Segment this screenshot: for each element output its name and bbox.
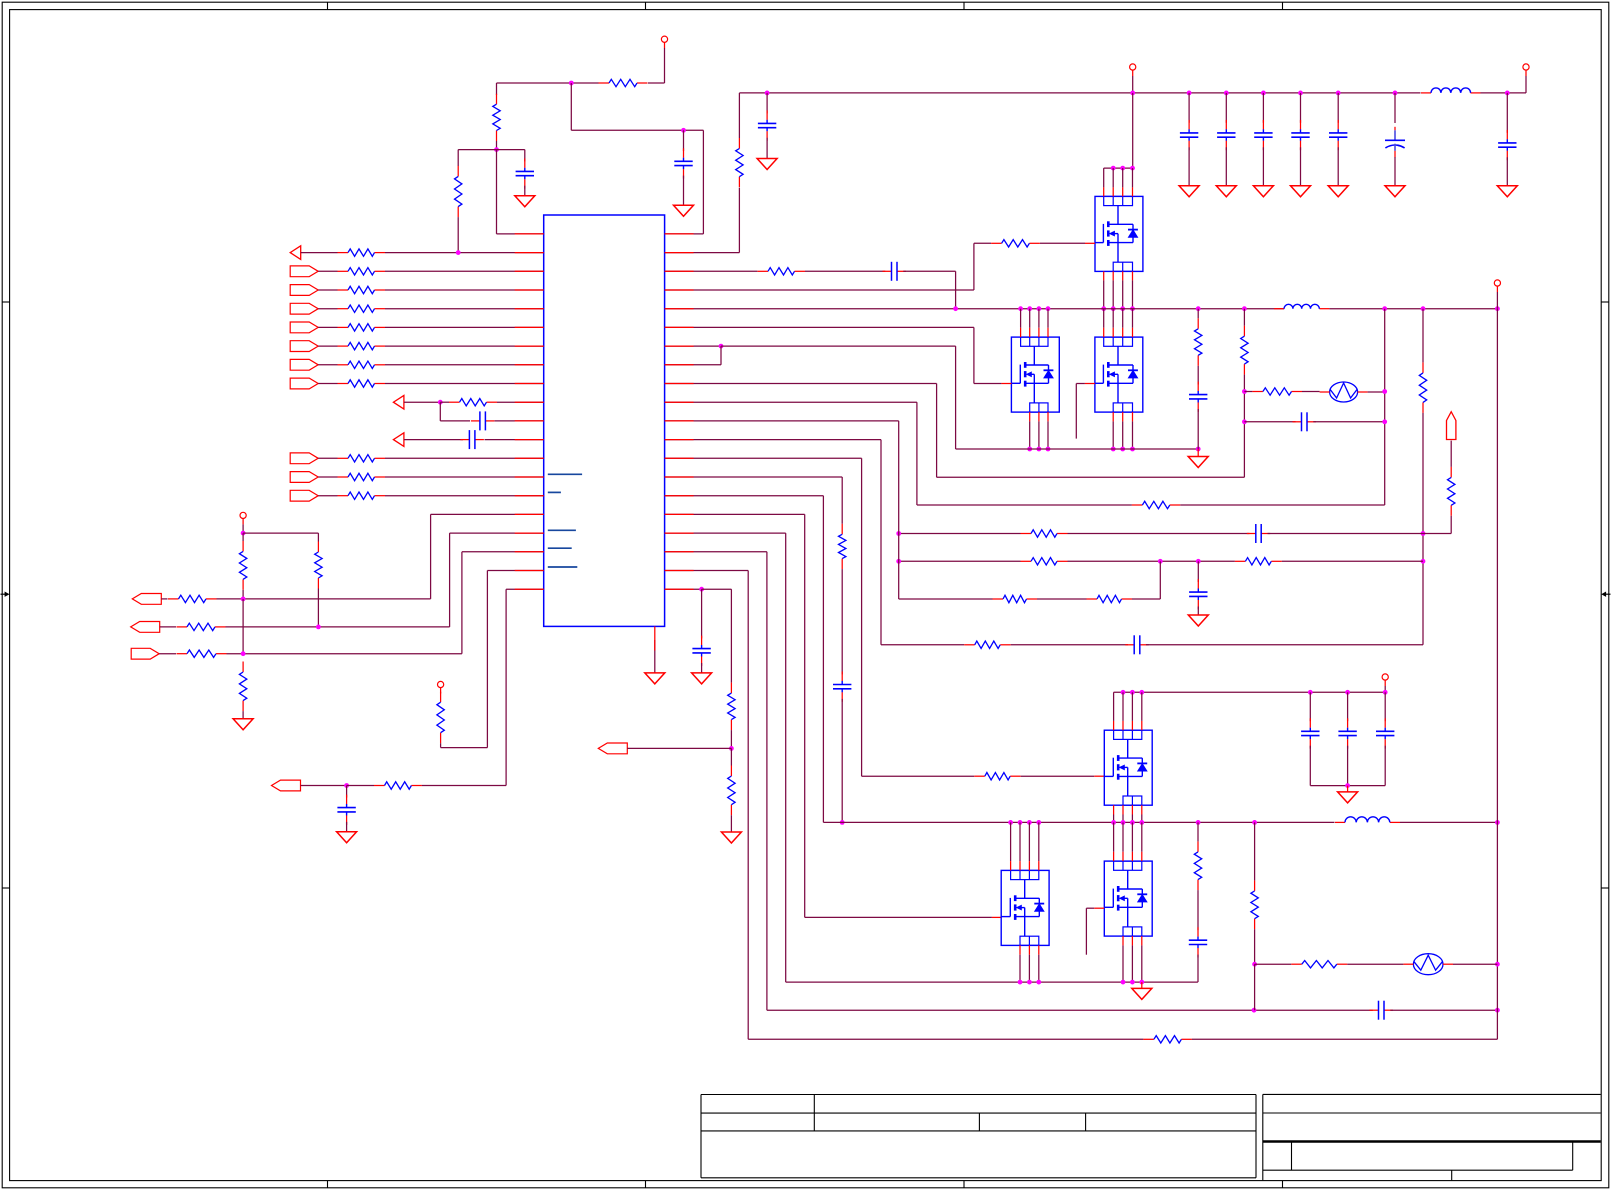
ground GND14 bbox=[1188, 449, 1208, 468]
pin q1 gate stub bbox=[1085, 242, 1095, 244]
junction bbox=[1130, 690, 1135, 695]
pin q5 pin bbox=[1141, 852, 1143, 861]
wire q1 down bbox=[1103, 280, 1105, 308]
wire cpol dn bbox=[1394, 157, 1396, 186]
border center arrow left bbox=[1, 592, 10, 597]
ground GND11 bbox=[1328, 186, 1348, 197]
wire bus308 a bbox=[665, 308, 1285, 310]
wire x731 c bbox=[730, 748, 732, 765]
pin U1 left pin 4 bbox=[515, 289, 544, 291]
wire row9 drop bbox=[439, 402, 441, 421]
wire row964 c bbox=[1453, 963, 1497, 965]
wire capbank1 dn bbox=[1225, 147, 1227, 185]
wire q4 feed bbox=[1113, 692, 1115, 721]
wire gate q1 b bbox=[1040, 242, 1085, 244]
pin U1 right pin 5 bbox=[665, 308, 694, 310]
pin U1 left pin 16 bbox=[515, 513, 544, 515]
pin q2 pin bbox=[1020, 328, 1022, 337]
pin U1 right pin 17 bbox=[665, 532, 694, 534]
pin q2 gate stub bbox=[1001, 383, 1011, 385]
wire pin7r bbox=[665, 345, 721, 347]
wire b692cap2 dn bbox=[1384, 746, 1386, 786]
wire x842 c bbox=[841, 699, 843, 823]
wire c2 to gnd bbox=[683, 176, 685, 206]
wire capbank0 dn bbox=[1188, 147, 1190, 185]
capacitor C20 bbox=[833, 672, 851, 702]
pin q6 pin bbox=[1028, 861, 1030, 870]
capacitor C26 bbox=[1189, 927, 1207, 957]
resistor R11 bbox=[338, 380, 386, 387]
pin q4 pin bbox=[1131, 721, 1133, 730]
wire x496 to junction bbox=[496, 141, 498, 150]
wire row785 b bbox=[347, 785, 374, 787]
junction bbox=[681, 128, 686, 133]
port PORT_B4 bbox=[290, 322, 318, 333]
port PORT_E1 bbox=[132, 594, 161, 605]
wire q5 gate dangling bbox=[1085, 908, 1087, 955]
wire x748 v bbox=[747, 571, 749, 1040]
wire q3 feed bbox=[1132, 309, 1134, 328]
wire vcc4 drop bbox=[1525, 76, 1527, 93]
wire x1198 a bbox=[1197, 309, 1199, 319]
wire pin2r bbox=[665, 252, 740, 254]
wire cap row a bbox=[1244, 421, 1295, 423]
wire b692cap1 dn bbox=[1347, 746, 1349, 786]
wire q4 feed bbox=[1122, 692, 1124, 721]
ground GND17 bbox=[721, 832, 741, 843]
junction bbox=[1382, 306, 1387, 311]
border tick bbox=[327, 2, 329, 1188]
power symbol VCC6 bbox=[1494, 280, 1500, 292]
junction bbox=[1421, 559, 1426, 564]
resistor R25 bbox=[991, 240, 1040, 247]
wire row1010 b bbox=[1390, 1009, 1497, 1011]
junction bbox=[1120, 447, 1125, 452]
wire x731 b bbox=[730, 730, 732, 748]
wire x1198f c bbox=[1197, 955, 1199, 983]
wire q6 down bbox=[1019, 955, 1021, 982]
pin q4 gate stub bbox=[1094, 775, 1104, 777]
junction bbox=[569, 81, 574, 86]
pin q4 pinb bbox=[1141, 805, 1143, 814]
wire q5 down bbox=[1131, 945, 1133, 982]
pin U1 left pin 15 bbox=[515, 495, 544, 497]
wire x701 v bbox=[701, 589, 703, 638]
wire pin9r bbox=[665, 383, 937, 385]
wire x458 to row1 bbox=[457, 217, 459, 253]
wire x318 a bbox=[317, 533, 319, 541]
junction bbox=[456, 250, 461, 255]
resistor R17 bbox=[315, 542, 322, 589]
port PORT_D1 bbox=[393, 395, 404, 409]
wire cap row b bbox=[1313, 421, 1384, 423]
junction bbox=[729, 746, 734, 751]
wire pin14r bbox=[665, 476, 843, 478]
pin q5 pinb bbox=[1131, 936, 1133, 945]
wire x955 down a bbox=[955, 271, 957, 308]
wire x458 down bbox=[457, 150, 459, 166]
pin q2 pin bbox=[1038, 328, 1040, 337]
wire q2 down bbox=[1047, 421, 1049, 449]
junction bbox=[494, 147, 499, 152]
resistor R32 bbox=[1448, 467, 1455, 516]
wire x243 b bbox=[242, 590, 244, 599]
resistor R41 bbox=[1143, 1036, 1192, 1043]
wire q4 down bbox=[1113, 815, 1115, 823]
junction bbox=[1101, 306, 1106, 311]
junction bbox=[1382, 389, 1387, 394]
junction bbox=[1111, 166, 1116, 171]
capacitor C8 bbox=[1217, 120, 1235, 150]
resistor R24 bbox=[736, 138, 743, 187]
capacitor C15 bbox=[1189, 382, 1207, 412]
wire osc row a bbox=[1244, 391, 1252, 393]
wire c13 up bbox=[1506, 93, 1508, 133]
wire q1 feed bbox=[1112, 168, 1114, 187]
resistor R42 bbox=[728, 683, 735, 731]
resistor R37 bbox=[1087, 595, 1133, 602]
ground GND1 bbox=[515, 196, 535, 207]
pin q3 pin bbox=[1112, 328, 1114, 337]
junction bbox=[1130, 166, 1135, 171]
wire x916 v bbox=[916, 402, 918, 505]
ground GND10 bbox=[1291, 186, 1311, 197]
wire pin1 left wire bbox=[497, 233, 544, 235]
power symbol VCC1 bbox=[661, 36, 667, 48]
ground GND3 bbox=[233, 719, 253, 730]
pin U1 right pin 10 bbox=[665, 401, 694, 403]
junction bbox=[1036, 820, 1041, 825]
wire x842 b bbox=[841, 569, 843, 674]
junction bbox=[1495, 306, 1500, 311]
junction bbox=[1298, 91, 1303, 96]
pin U1 left pin 12 bbox=[515, 439, 544, 441]
junction bbox=[1242, 389, 1247, 394]
pin q1 pin bbox=[1132, 187, 1134, 196]
wire row653 b bbox=[227, 653, 462, 655]
wire row653 a bbox=[159, 653, 176, 655]
wire pin16r bbox=[665, 513, 805, 515]
wire row130 bbox=[571, 129, 703, 131]
pin U1 left pin 7 bbox=[515, 345, 544, 347]
wire x1244 b bbox=[1243, 375, 1245, 478]
junction bbox=[1308, 690, 1313, 695]
capacitor C17 (series) bbox=[1247, 524, 1270, 543]
resistor R44 bbox=[1194, 841, 1201, 890]
wire q1 down bbox=[1122, 280, 1124, 308]
pin q3 pin bbox=[1122, 328, 1124, 337]
title block revision table bbox=[1263, 1094, 1601, 1180]
pin q5 pinb bbox=[1122, 936, 1124, 945]
pin U1 right pin 11 bbox=[665, 420, 694, 422]
pin U1 right pin 4 bbox=[665, 289, 694, 291]
junction bbox=[1027, 980, 1032, 985]
junction bbox=[1382, 419, 1387, 424]
wire row599 c bbox=[1132, 598, 1160, 600]
wire row917 bbox=[805, 916, 992, 918]
junction bbox=[1008, 820, 1013, 825]
wire q2 gate wire bbox=[974, 383, 1002, 385]
wire row533 a bbox=[899, 533, 1021, 535]
wire x936 v bbox=[936, 384, 938, 478]
pin U1 right pin 15 bbox=[665, 495, 694, 497]
junction bbox=[1196, 820, 1201, 825]
pin U1 right pin 13 bbox=[665, 457, 694, 459]
pin q1 pin bbox=[1103, 187, 1105, 196]
pin q2 pinb bbox=[1038, 412, 1040, 421]
pin U1 left pin 19 bbox=[515, 570, 544, 572]
wire bus308 b bbox=[1329, 308, 1497, 310]
wire pin8r bbox=[665, 364, 721, 366]
wire pin4r bbox=[665, 289, 974, 291]
wire q2 down bbox=[1029, 421, 1031, 449]
junction bbox=[1120, 166, 1125, 171]
junction bbox=[316, 625, 321, 630]
title block left table bbox=[701, 1095, 1256, 1178]
inductor L2 bbox=[1274, 304, 1329, 308]
wire capbank4 up bbox=[1337, 93, 1339, 123]
resistor R5 bbox=[338, 268, 386, 275]
wire rowp5 b bbox=[385, 270, 544, 272]
resistor R12 bbox=[338, 455, 386, 462]
junction bbox=[1018, 306, 1023, 311]
capacitor C2 bbox=[674, 148, 692, 178]
port PORT_B2 bbox=[290, 285, 318, 296]
wire row10 b bbox=[485, 439, 544, 441]
capacitor C7 bbox=[1180, 120, 1198, 150]
junction bbox=[344, 783, 349, 788]
wire rowq a bbox=[318, 495, 337, 497]
wire x973 up bbox=[973, 243, 975, 290]
pin q1 pin bbox=[1112, 187, 1114, 196]
ground GND16 bbox=[692, 673, 712, 684]
ground GND8 bbox=[1216, 186, 1236, 197]
wire q6 feed bbox=[1038, 822, 1040, 861]
wire row589l bbox=[506, 588, 544, 590]
junction bbox=[1120, 306, 1125, 311]
wire x1254 a bbox=[1254, 822, 1256, 880]
border tick bbox=[1282, 2, 1284, 1188]
port PORT_E2 bbox=[131, 622, 160, 633]
wire b692cap0 up bbox=[1309, 692, 1311, 721]
wire row599 a bbox=[899, 598, 993, 600]
wire vcc3 drop bbox=[440, 693, 442, 695]
wire row561 a bbox=[899, 560, 1021, 562]
wire q3 feed bbox=[1122, 309, 1124, 328]
wire x1451 b bbox=[1450, 516, 1452, 534]
pin U1 right pin 7 bbox=[665, 345, 694, 347]
wire q1 feed bbox=[1103, 168, 1105, 187]
junction bbox=[896, 531, 901, 536]
resistor R20 bbox=[177, 650, 227, 657]
pin q5 pin bbox=[1122, 852, 1124, 861]
wire pin3r c bbox=[903, 270, 955, 272]
transistor Q6 bbox=[1001, 870, 1049, 945]
port PORT_E3 bbox=[131, 648, 159, 659]
border tick bbox=[963, 2, 965, 1188]
resistor R38 bbox=[964, 641, 1011, 648]
resistor R1 bbox=[599, 79, 648, 86]
wire rowp9 a bbox=[318, 345, 337, 347]
wire capbank0 up bbox=[1188, 93, 1190, 123]
pin U1 left pin 13 bbox=[515, 457, 544, 459]
junction bbox=[1027, 820, 1032, 825]
pin q4 pin bbox=[1122, 721, 1124, 730]
wire x496 down2 bbox=[496, 150, 498, 234]
pin U1 left pin 1 bbox=[515, 233, 544, 235]
wire x243 c bbox=[242, 599, 244, 654]
ground GND5 bbox=[645, 673, 665, 684]
resistor R2 bbox=[493, 94, 500, 141]
wire rowp11 a bbox=[318, 383, 337, 385]
pin U1 left pin 11 bbox=[515, 420, 544, 422]
pin q3 pin bbox=[1103, 328, 1105, 337]
junction bbox=[1383, 690, 1388, 695]
U1 pin-name bar bbox=[548, 566, 578, 568]
power symbol VCC3 bbox=[438, 681, 444, 693]
wire row570l bbox=[487, 570, 543, 572]
wire capbank2 dn bbox=[1262, 147, 1264, 185]
pin U1 left pin 2 bbox=[515, 252, 544, 254]
wire q1 down bbox=[1112, 280, 1114, 308]
wire row9 a bbox=[404, 401, 440, 403]
transistor Q4 bbox=[1104, 730, 1152, 805]
transistor Q3 bbox=[1095, 337, 1143, 412]
junction bbox=[1046, 306, 1051, 311]
port PORT_B6 bbox=[290, 359, 318, 370]
wire x1198f b bbox=[1197, 890, 1199, 930]
resistor R14 bbox=[338, 492, 386, 499]
border tick bbox=[2, 887, 1609, 889]
resistor R23 bbox=[374, 782, 422, 789]
wire q5 down bbox=[1122, 945, 1124, 982]
capacitor C12 (polarized) bbox=[1385, 127, 1405, 158]
junction bbox=[1252, 962, 1257, 967]
junction bbox=[1130, 980, 1135, 985]
wire x861 v bbox=[861, 458, 863, 776]
wire row1010 a bbox=[767, 1009, 1373, 1011]
resistor R9 bbox=[338, 342, 386, 349]
pin q3 pin bbox=[1132, 328, 1134, 337]
pin q2 pin bbox=[1029, 328, 1031, 337]
capacitor C10 bbox=[1291, 120, 1309, 150]
resistor R10 bbox=[338, 361, 386, 368]
pin q4 pinb bbox=[1113, 805, 1115, 814]
wire q2 feed bbox=[1038, 309, 1040, 328]
junction bbox=[1187, 91, 1192, 96]
pin U1 right pin 16 bbox=[665, 513, 694, 515]
capacitor C9 bbox=[1254, 120, 1272, 150]
junction bbox=[1196, 559, 1201, 564]
resistor R18 bbox=[168, 595, 217, 602]
wire x506 up bbox=[505, 589, 507, 785]
pin q3 gate stub bbox=[1085, 383, 1095, 385]
junction bbox=[1345, 783, 1350, 788]
wire rowp11 b bbox=[385, 383, 544, 385]
resistor R19 bbox=[177, 623, 226, 630]
wire row1039 a bbox=[748, 1038, 1143, 1040]
wire x1254 b bbox=[1254, 929, 1256, 964]
capacitor C16 (series) bbox=[1293, 412, 1317, 431]
wire row626 a bbox=[160, 626, 176, 628]
junction bbox=[1158, 559, 1163, 564]
wire row785 c bbox=[422, 785, 506, 787]
junction bbox=[1027, 306, 1032, 311]
wire x703 down bbox=[702, 130, 704, 234]
pin q4 pinb bbox=[1131, 805, 1133, 814]
wire pin13r bbox=[665, 457, 862, 459]
pin U1 right pin 14 bbox=[665, 476, 694, 478]
wire c13 dn bbox=[1506, 157, 1508, 185]
wire row533 bbox=[243, 532, 318, 534]
wire pin15r bbox=[665, 495, 824, 497]
wire u1 bottom wire bbox=[654, 640, 656, 673]
wire q3 gate dangling v bbox=[1075, 384, 1077, 439]
wire left drop x496 bbox=[496, 83, 498, 95]
wire q5 feed bbox=[1131, 822, 1133, 851]
port PORT_C bbox=[290, 453, 318, 464]
wire x318 b bbox=[317, 589, 319, 627]
inductor L1 bbox=[1421, 88, 1481, 93]
pin q5 gate stub2 bbox=[1094, 907, 1104, 909]
wire x973 down bbox=[973, 327, 975, 383]
junction bbox=[1421, 306, 1426, 311]
wire rowq b bbox=[385, 495, 544, 497]
junction bbox=[1196, 447, 1201, 452]
wire x701 v2 bbox=[701, 663, 703, 673]
wire x461 up bbox=[461, 552, 463, 654]
wire q6 feed bbox=[1028, 822, 1030, 861]
junction bbox=[1505, 91, 1510, 96]
wire x739 up b bbox=[738, 93, 740, 138]
resistor R28 bbox=[1241, 326, 1248, 375]
wire vcc1 drop bbox=[664, 48, 666, 83]
capacitor C6 bbox=[758, 110, 776, 140]
wire q1 feed bbox=[1122, 168, 1124, 187]
resistor R29 bbox=[1252, 388, 1302, 395]
wire vcc7 drop bbox=[1384, 686, 1386, 692]
wire pin7r b bbox=[721, 345, 956, 347]
capacitor C25 bbox=[1376, 718, 1394, 748]
wire x823 v bbox=[822, 496, 824, 823]
ground GND19 bbox=[1132, 982, 1152, 999]
capacitor C19 (series) bbox=[1125, 635, 1149, 654]
wire row1039 b bbox=[1192, 1038, 1498, 1040]
wire row1 b bbox=[385, 252, 544, 254]
wire rowp10 b bbox=[385, 364, 544, 366]
port PORT_B1 bbox=[290, 266, 318, 277]
wire q6 feed bbox=[1019, 822, 1021, 861]
wire row10 a bbox=[404, 439, 463, 441]
resistor R33 bbox=[1021, 530, 1068, 537]
wire x449 up bbox=[449, 533, 451, 627]
wire q6 down bbox=[1028, 955, 1030, 982]
wire row1 a bbox=[301, 252, 338, 254]
pin q3 pinb bbox=[1132, 412, 1134, 421]
junction bbox=[1495, 962, 1500, 967]
wire row561 c bbox=[1282, 560, 1423, 562]
wire x898 v bbox=[898, 421, 900, 599]
wire x766 v bbox=[766, 552, 768, 1010]
wire q4 down bbox=[1131, 815, 1133, 823]
ground GND7 bbox=[1179, 186, 1199, 197]
pin U1 right pin 8 bbox=[665, 364, 694, 366]
junction bbox=[241, 597, 246, 602]
wire vcc5 drop bbox=[1132, 76, 1134, 93]
wire x955 down b bbox=[955, 346, 957, 449]
resistor R16 bbox=[239, 541, 246, 590]
border center arrow right bbox=[1601, 592, 1610, 597]
